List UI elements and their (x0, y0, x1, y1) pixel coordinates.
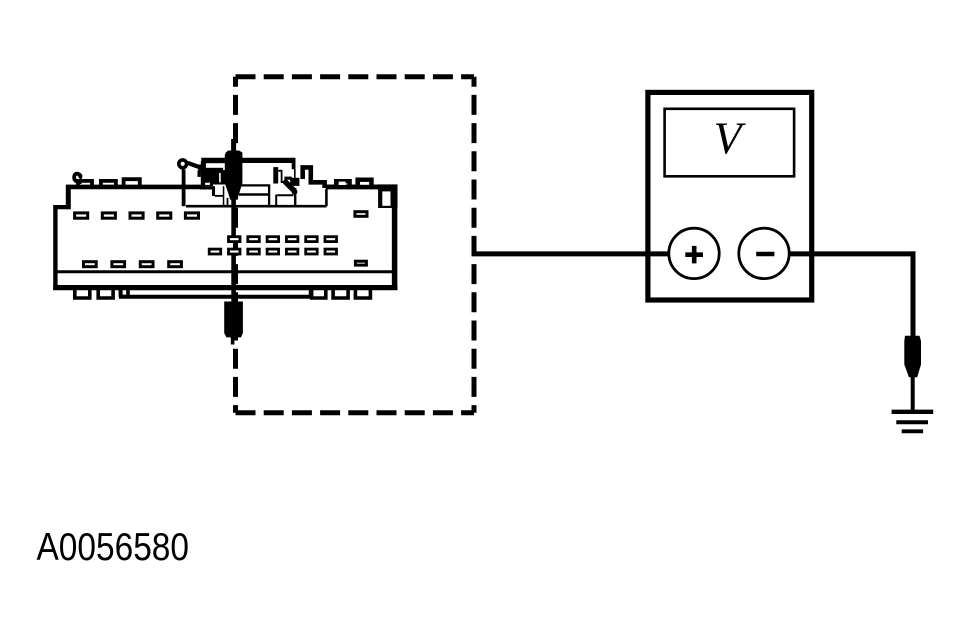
top clip C (124, 179, 140, 188)
bottom clip 3 (121, 287, 128, 297)
wire: dashed box to voltmeter + (472, 251, 670, 256)
top clip D (336, 181, 349, 188)
latch tower (right of cover) (303, 167, 325, 188)
cover left wall / hook vertical (182, 170, 186, 207)
wire: voltmeter - to ground (790, 251, 916, 336)
test lead wire (middle) (231, 198, 236, 236)
ground probe plug (904, 336, 921, 411)
connector C1 body outline (53, 185, 397, 291)
terminal row D (lower left) (84, 262, 182, 267)
cover top bar (201, 158, 294, 182)
cover bottom edge (186, 205, 327, 208)
test lead wire (lower) (231, 255, 236, 303)
terminal row A (upper left) (75, 213, 199, 218)
terminal row D (right) (355, 261, 366, 265)
bottom clip 6 (355, 287, 370, 298)
latch diagonal (cover right) (284, 178, 300, 195)
terminal row C (center lower) (209, 249, 336, 254)
test probe (top) (225, 151, 243, 200)
dashed box: connector assembly boundary (236, 77, 475, 413)
cover lines right of probe (239, 184, 295, 206)
voltmeter U1 body (648, 92, 812, 300)
svg-text:A0056580: A0056580 (37, 526, 190, 569)
voltmeter display (665, 109, 795, 177)
latch hook (cover left) (179, 160, 202, 171)
test lead wire (top) (231, 139, 236, 158)
bottom clip 2 (98, 287, 113, 298)
top clip B (101, 181, 116, 188)
terminal row B (center upper) (229, 237, 337, 242)
terminal row A (right) (355, 212, 367, 217)
connector inner bottom wall (55, 270, 394, 273)
top clip E (358, 180, 372, 189)
top clip A (with curl) (74, 174, 92, 188)
bottom clip 1 (75, 287, 90, 298)
latch bracket (cover right) (273, 167, 292, 183)
voltmeter + terminal (669, 228, 719, 278)
voltmeter - terminal (739, 228, 789, 278)
test probe (bottom) (224, 302, 243, 345)
bottom rail tray (119, 290, 311, 297)
cover left housing block (198, 161, 229, 206)
connector top-right corner block (378, 184, 397, 208)
bottom clip 4 (312, 287, 326, 298)
cover right wall (325, 189, 328, 206)
ground symbol (892, 412, 934, 432)
bottom clip 5 (333, 287, 348, 298)
